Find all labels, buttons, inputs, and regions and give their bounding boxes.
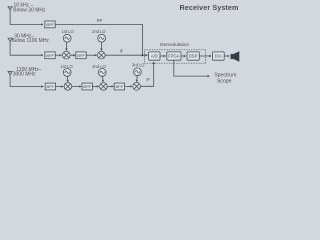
oscillator 1st LO (UHF) [63, 69, 71, 77]
mixer MX2 (VHF 2nd mixer) [98, 51, 106, 59]
wire 1st LO to MX3 [66, 76, 68, 82]
antenna ANT1 (10 kHz - Below 30 MHz) [8, 7, 12, 12]
wire IF to A/D [105, 54, 148, 56]
wire ANT1 down and right to BPF [10, 11, 43, 24]
mixer MX1 (VHF 1st mixer) [63, 51, 71, 59]
oscillator 3rd LO [134, 68, 142, 76]
svg-text:FPGA: FPGA [168, 54, 180, 59]
band-pass filter BPF5 (UHF 1st IF) [82, 83, 92, 90]
wire MX3 to BPF [72, 85, 82, 87]
wire MX4 to BPF [107, 85, 113, 87]
wire MX5 up into A/D [140, 62, 153, 86]
wire BPF to mixer [55, 54, 61, 56]
mixer MX5 (UHF 3rd mixer) [133, 83, 141, 91]
svg-text:Spectrum: Spectrum [214, 72, 236, 78]
wire 2nd LO to MX2 [100, 42, 102, 50]
band-pass filter BPF1 (HF path) [45, 21, 55, 28]
wire BPF to mixer [92, 85, 98, 87]
mixer MX3 (UHF 1st mixer) [64, 83, 72, 91]
svg-text:IF: IF [120, 48, 124, 53]
oscillator 2nd LO (UHF) [98, 69, 106, 77]
wire 1st LO to MX1 [65, 42, 67, 50]
block D/A converter [212, 52, 224, 60]
wire A/D to FPGA [160, 55, 166, 57]
junction RF/IF [141, 54, 143, 56]
wire FPGA to DSP [181, 55, 186, 57]
svg-text:3000 MHz: 3000 MHz [13, 72, 36, 78]
svg-text:DSP: DSP [189, 54, 198, 59]
block FPGA [167, 52, 181, 60]
wire ANT2 down and right to BPF [10, 43, 43, 56]
mixer MX4 (UHF 2nd mixer) [100, 83, 108, 91]
band-pass filter BPF2 (VHF path input) [45, 52, 55, 59]
speaker [231, 51, 240, 61]
wire 2nd LO to MX4 [101, 76, 104, 82]
svg-text:Below 30 MHz: Below 30 MHz [13, 7, 46, 13]
svg-text:A/D: A/D [151, 54, 158, 59]
wire MX1 to BPF [70, 54, 75, 56]
block DSP [187, 52, 199, 60]
block A/D converter [149, 52, 160, 60]
svg-text:Receiver System: Receiver System [179, 3, 238, 12]
wire 3rd LO to MX5 [136, 76, 139, 82]
svg-text:RF: RF [97, 18, 103, 23]
antenna ANT2 (30 MHz - Below 1100 MHz) [8, 38, 12, 43]
wire D/A to speaker [224, 55, 229, 57]
band-pass filter BPF6 (UHF 2nd IF) [114, 83, 124, 90]
svg-text:Below 1100 MHz: Below 1100 MHz [12, 38, 50, 44]
wire BPF to mixer [86, 54, 97, 56]
antenna ANT3 (1100 MHz - 3000 MHz) [8, 71, 12, 76]
wire RF line from BPF1 to junction then down [55, 24, 142, 55]
wire ANT3 down and right to BPF [10, 76, 43, 87]
svg-text:1st LO: 1st LO [61, 64, 73, 69]
band-pass filter BPF3 (VHF 1st IF) [76, 52, 86, 59]
wire FPGA down to spectrum scope [174, 60, 210, 76]
oscillator 1st LO (VHF) [63, 34, 71, 42]
svg-text:2nd LO: 2nd LO [92, 64, 105, 69]
svg-text:Scope: Scope [217, 79, 232, 85]
svg-text:3rd LO: 3rd LO [132, 62, 145, 67]
wire BPF to mixer [125, 85, 132, 87]
svg-text:D/A: D/A [215, 54, 222, 59]
band-pass filter BPF4 (UHF path input) [45, 83, 55, 90]
svg-text:Demodulation: Demodulation [160, 42, 189, 47]
demodulation dashed box [144, 50, 205, 63]
oscillator 2nd LO (VHF) [98, 34, 106, 42]
svg-text:IF: IF [146, 77, 150, 82]
wire BPF to mixer [56, 86, 64, 88]
svg-text:2nd LO: 2nd LO [92, 29, 105, 34]
wire DSP to D/A [199, 55, 211, 57]
svg-text:1st LO: 1st LO [62, 29, 74, 34]
